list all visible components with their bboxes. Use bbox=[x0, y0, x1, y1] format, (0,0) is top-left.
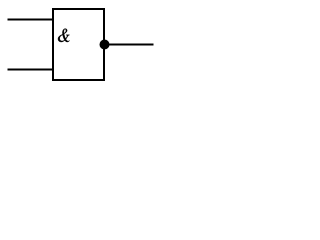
wire input B bbox=[8, 69, 53, 71]
label & bbox=[58, 29, 70, 42]
AND gate U1 (IEC rectangle) bbox=[53, 9, 104, 80]
junction dot bbox=[100, 40, 110, 50]
wire input A bbox=[8, 19, 53, 21]
wire output bbox=[105, 44, 154, 46]
